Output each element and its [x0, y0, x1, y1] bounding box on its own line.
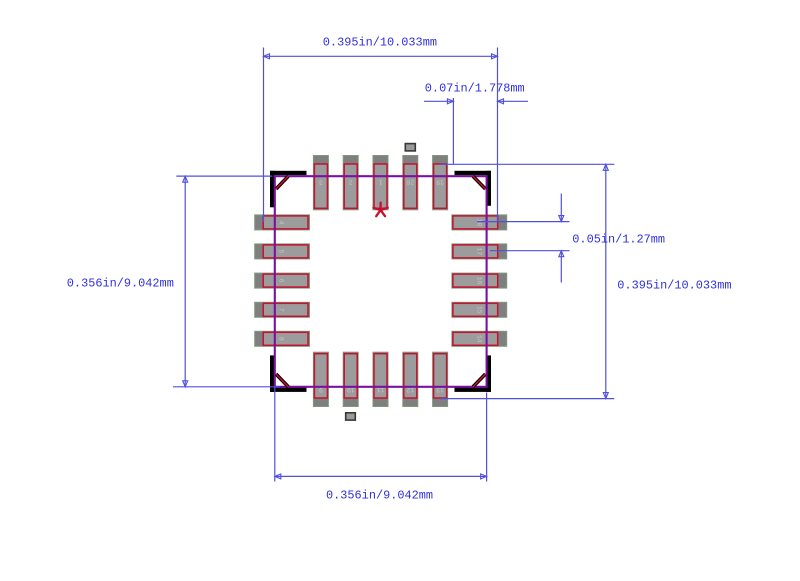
svg-text:0.356in/9.042mm: 0.356in/9.042mm [326, 489, 433, 503]
svg-text:4: 4 [278, 220, 285, 224]
svg-text:15: 15 [475, 306, 482, 314]
svg-text:0.395in/10.033mm: 0.395in/10.033mm [617, 278, 731, 292]
svg-text:14: 14 [475, 335, 482, 343]
svg-text:5: 5 [278, 249, 285, 253]
svg-text:2: 2 [349, 179, 353, 186]
svg-text:0.05in/1.27mm: 0.05in/1.27mm [572, 233, 665, 247]
svg-text:7: 7 [278, 308, 285, 312]
svg-text:17: 17 [475, 247, 482, 255]
svg-text:18: 18 [475, 218, 482, 226]
svg-text:19: 19 [436, 179, 444, 186]
svg-text:1: 1 [378, 179, 382, 186]
svg-text:0.395in/10.033mm: 0.395in/10.033mm [323, 35, 437, 49]
svg-text:16: 16 [475, 277, 482, 285]
svg-text:0.356in/9.042mm: 0.356in/9.042mm [67, 276, 174, 290]
svg-text:20: 20 [406, 179, 414, 186]
svg-text:0.07in/1.778mm: 0.07in/1.778mm [425, 81, 525, 95]
svg-text:3: 3 [319, 179, 323, 186]
svg-text:6: 6 [278, 279, 285, 283]
svg-text:8: 8 [278, 337, 285, 341]
